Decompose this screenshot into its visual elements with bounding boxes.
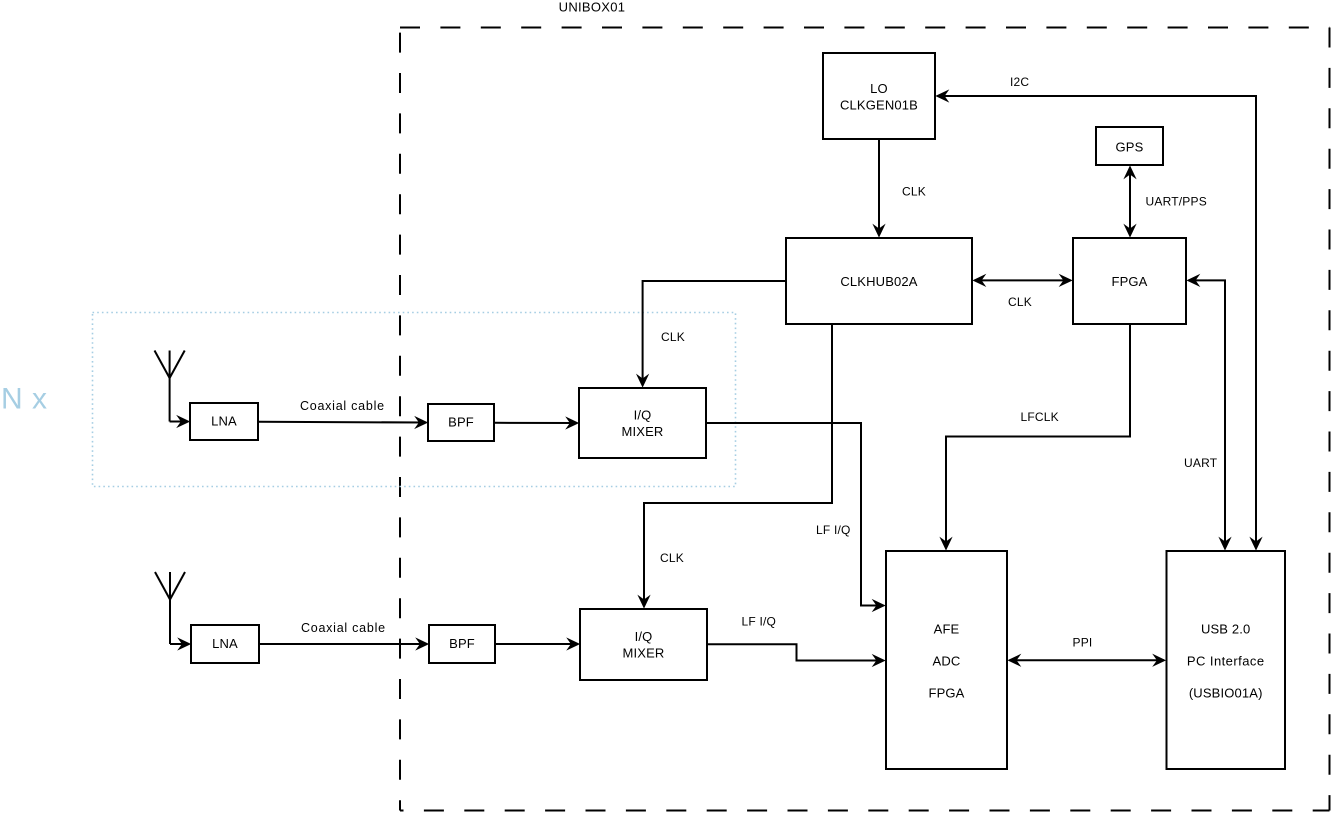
wire LNA2 to BPF2: [259, 643, 427, 645]
antenna ANT1: [155, 351, 185, 422]
svg-text:CLKHUB02A: CLKHUB02A: [840, 274, 917, 289]
wire antenna2 to LNA2: [170, 643, 189, 645]
wire LNA1 to BPF1: [258, 421, 426, 424]
wire BPF2 to MIXER2: [495, 643, 578, 645]
svg-text:I2C: I2C: [1010, 75, 1029, 89]
block I/Q MIXER1: [579, 388, 706, 458]
svg-text:ADC: ADC: [933, 654, 961, 669]
svg-text:Coaxial cable: Coaxial cable: [300, 399, 385, 413]
svg-text:AFE: AFE: [934, 622, 960, 637]
svg-text:I/Q: I/Q: [635, 629, 653, 644]
svg-text:UNIBOX01: UNIBOX01: [559, 0, 626, 15]
svg-text:LF I/Q: LF I/Q: [816, 523, 851, 537]
enclosure UNIBOX01 dashed border: [400, 28, 1330, 811]
svg-text:CLKGEN01B: CLKGEN01B: [840, 97, 918, 112]
svg-text:FPGA: FPGA: [929, 686, 965, 701]
svg-text:PC Interface: PC Interface: [1187, 654, 1265, 669]
svg-text:UART: UART: [1184, 456, 1218, 470]
block BPF2: [429, 625, 495, 663]
wire FPGA to AFE (LFCLK): [946, 324, 1130, 549]
block AFE ADC FPGA: [886, 551, 1007, 769]
block USB 2.0 PC Interface USBIO01A: [1167, 551, 1286, 769]
block FPGA: [1073, 238, 1186, 324]
block CLKHUB02A: [786, 238, 972, 324]
svg-text:FPGA: FPGA: [1112, 274, 1148, 289]
svg-text:CLK: CLK: [661, 330, 685, 344]
svg-text:BPF: BPF: [449, 636, 475, 651]
wire CLKHUB02A to MIXER2 (CLK): [644, 324, 832, 607]
block GPS: [1096, 127, 1163, 165]
svg-text:LNA: LNA: [212, 636, 238, 651]
wire MIXER1 to AFE (LF I/Q): [706, 423, 884, 606]
svg-text:PPI: PPI: [1073, 636, 1093, 650]
antenna ANT2: [155, 572, 185, 644]
wire antenna1 to LNA1: [170, 421, 188, 423]
wire LO to CLKHUB02A (CLK): [878, 139, 880, 236]
svg-text:GPS: GPS: [1116, 140, 1144, 155]
svg-text:MIXER: MIXER: [622, 424, 664, 439]
svg-text:UART/PPS: UART/PPS: [1146, 195, 1207, 209]
svg-text:USB 2.0: USB 2.0: [1201, 622, 1250, 637]
block I/Q MIXER2: [580, 609, 707, 680]
svg-text:CLK: CLK: [1008, 295, 1032, 309]
wire CLKHUB02A to FPGA (CLK): [975, 279, 1071, 281]
svg-text:LF I/Q: LF I/Q: [742, 615, 777, 629]
svg-text:BPF: BPF: [448, 415, 474, 430]
wire CLKHUB02A to MIXER1 (CLK): [643, 281, 786, 386]
wire FPGA to USB (UART): [1189, 280, 1226, 548]
block LNA2: [191, 625, 259, 663]
wire I2C bus USB to LO: [938, 96, 1257, 549]
svg-text:LO: LO: [870, 81, 888, 96]
svg-text:Coaxial cable: Coaxial cable: [301, 621, 386, 635]
block BPF1: [428, 404, 494, 441]
svg-text:N x: N x: [1, 383, 48, 416]
block LNA1: [190, 403, 258, 440]
wire BPF1 to MIXER1: [494, 422, 577, 424]
wire AFE to USB (PPI): [1010, 659, 1165, 661]
svg-text:LFCLK: LFCLK: [1021, 410, 1059, 424]
svg-text:LNA: LNA: [211, 414, 237, 429]
svg-text:I/Q: I/Q: [634, 408, 652, 423]
block LO CLKGEN01B: [823, 53, 935, 139]
wire GPS to FPGA (UART/PPS): [1129, 168, 1131, 236]
wire MIXER2 to AFE (LF I/Q): [707, 644, 884, 660]
svg-text:MIXER: MIXER: [623, 646, 665, 661]
svg-text:CLK: CLK: [902, 185, 926, 199]
svg-text:(USBIO01A): (USBIO01A): [1189, 686, 1263, 701]
svg-text:CLK: CLK: [660, 551, 684, 565]
enclosure N x dotted blue box: [93, 313, 736, 487]
